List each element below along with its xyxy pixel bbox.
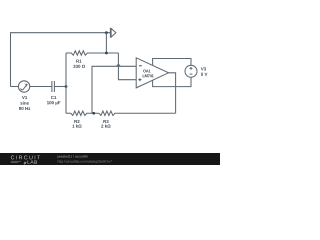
wire op-amp output <box>169 73 176 113</box>
logo CircuitLab CIRCUIT <box>11 156 40 160</box>
node flag F1 <box>110 28 116 38</box>
logo lines <box>11 161 21 162</box>
label R3 2 kohm <box>101 124 110 127</box>
op-amp plus sign <box>138 78 141 81</box>
resistor R1 <box>66 51 118 55</box>
wire V1 to C1 <box>30 86 52 88</box>
junction dot top node <box>105 31 108 34</box>
label R2 <box>74 120 79 123</box>
label V1 <box>22 96 27 99</box>
label R1 <box>76 60 81 63</box>
wire to op-amp plus input <box>118 53 135 80</box>
label C1 100 uF <box>47 101 60 105</box>
label V3 <box>201 67 206 70</box>
wire input loop top-left <box>11 33 111 87</box>
source V3 <box>185 65 197 77</box>
wire bottom left <box>66 112 71 114</box>
watermark bar <box>0 153 220 165</box>
label R1 330 ohm <box>73 65 85 68</box>
wire V1 left lead <box>11 86 19 88</box>
label V3 5 V <box>201 73 207 76</box>
capacitor C1 <box>52 81 55 92</box>
label OA1 LM741 <box>143 74 154 77</box>
junction dot R1 right node <box>105 52 108 55</box>
resistor R3 <box>99 111 176 115</box>
wire C1 to node A <box>54 86 66 88</box>
label C1 <box>51 96 56 99</box>
watermark user text <box>57 155 87 158</box>
wire minus input branch <box>92 66 136 113</box>
logo bolt <box>23 160 27 165</box>
label V1 80 Hz <box>19 107 30 110</box>
wire V+ supply <box>153 59 191 66</box>
logo LAB <box>28 160 37 163</box>
label V1 sine <box>20 101 29 104</box>
resistor R2 <box>71 111 99 115</box>
wire hop crossing <box>117 64 121 66</box>
watermark url text <box>58 160 112 163</box>
junction dot R2-R3 node <box>92 112 95 115</box>
source V1 <box>18 81 29 92</box>
junction dot node A <box>65 85 68 88</box>
wire flag node down <box>105 33 107 53</box>
wire node A vertical <box>65 53 67 113</box>
wire V- supply <box>153 77 191 86</box>
op-amp OA1 <box>136 58 168 88</box>
label R2 1 kohm <box>72 124 81 127</box>
op-amp minus sign <box>139 65 142 67</box>
label OA1 <box>143 70 150 73</box>
label R3 <box>103 120 108 123</box>
